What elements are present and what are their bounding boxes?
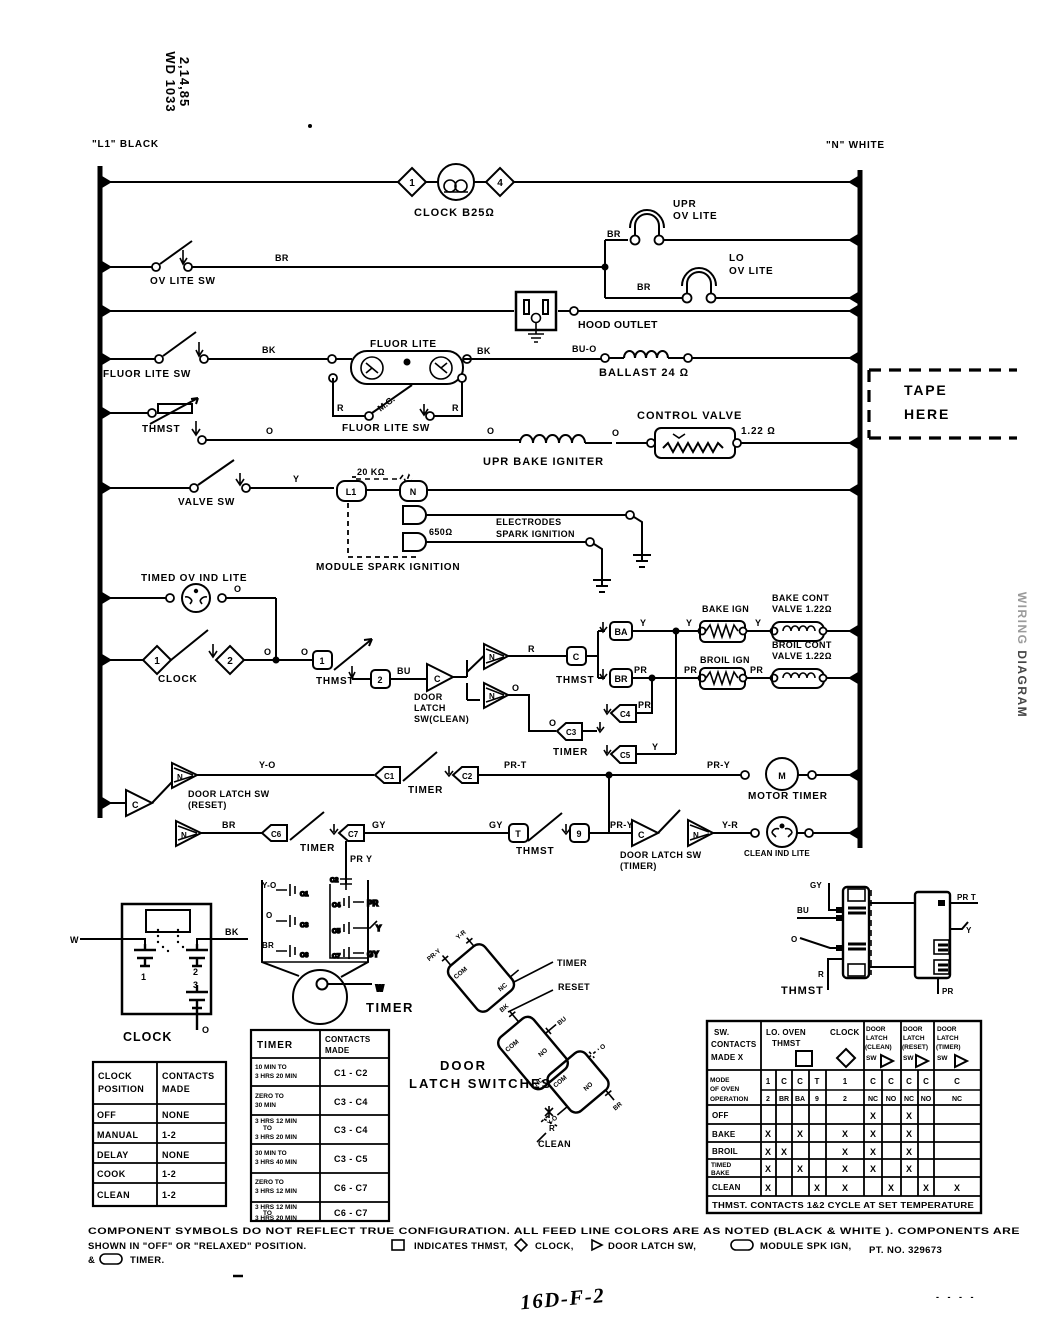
- svg-text:UPR: UPR: [673, 199, 697, 210]
- svg-text:PR-T: PR-T: [504, 760, 527, 770]
- wire electrode1 down: [634, 517, 642, 550]
- svg-text:OPERATION: OPERATION: [710, 1096, 748, 1103]
- svg-text:20 KΩ: 20 KΩ: [357, 467, 385, 477]
- svg-text:BK: BK: [477, 346, 491, 356]
- svg-text:THMST: THMST: [516, 846, 554, 857]
- svg-text:X: X: [906, 1164, 912, 1174]
- svg-text:TIMER: TIMER: [257, 1040, 293, 1051]
- svg-text:OV LITE: OV LITE: [673, 211, 718, 222]
- svg-text:3 HRS 40 MIN: 3 HRS 40 MIN: [255, 1159, 297, 1166]
- svg-text:3 HRS 12 MIN: 3 HRS 12 MIN: [255, 1204, 297, 1211]
- svg-text:3 HRS 20 MIN: 3 HRS 20 MIN: [255, 1073, 297, 1080]
- wire left bus L1: [98, 166, 103, 818]
- svg-text:C: C: [923, 1077, 929, 1086]
- node electrode1: [626, 511, 634, 519]
- svg-text:C5: C5: [620, 751, 631, 760]
- node fluor in: [328, 355, 336, 363]
- door latch switch clean body: [524, 1035, 642, 1151]
- svg-text:1: 1: [154, 656, 160, 667]
- thmst contact box 9: [570, 824, 589, 842]
- svg-text:C: C: [132, 800, 139, 810]
- svg-text:SHOWN IN "OFF" OR "RELAXED" P: SHOWN IN "OFF" OR "RELAXED" POSITION.: [88, 1241, 307, 1252]
- node junctions left bus: [102, 176, 112, 809]
- svg-text:3 HRS 12 MIN: 3 HRS 12 MIN: [255, 1188, 297, 1195]
- svg-text:THMST: THMST: [556, 675, 594, 686]
- svg-text:X: X: [870, 1147, 876, 1157]
- svg-text:OV LITE: OV LITE: [729, 266, 774, 277]
- svg-text:C: C: [870, 1077, 876, 1086]
- svg-text:X: X: [906, 1147, 912, 1157]
- svg-text:10 MIN TO: 10 MIN TO: [255, 1064, 287, 1071]
- svg-text:C6 - C7: C6 - C7: [334, 1208, 368, 1218]
- motor timer M: [741, 758, 860, 790]
- svg-text:R: R: [452, 403, 459, 413]
- svg-text:PT. NO. 329673: PT. NO. 329673: [869, 1245, 942, 1256]
- svg-text:DOOR: DOOR: [903, 1026, 923, 1033]
- wire L1 to M: [366, 489, 400, 491]
- svg-text:C1: C1: [300, 891, 309, 898]
- svg-text:CLOCK: CLOCK: [158, 674, 198, 685]
- wire hood outlet row: [100, 310, 860, 312]
- svg-text:TIMER: TIMER: [557, 958, 587, 968]
- svg-text:2: 2: [377, 675, 382, 685]
- svg-text:X: X: [888, 1183, 894, 1193]
- svg-text:X: X: [781, 1147, 787, 1157]
- svg-text:C: C: [434, 674, 441, 684]
- timer contact C4: [604, 704, 646, 722]
- svg-text:PR: PR: [750, 665, 763, 675]
- svg-text:O: O: [301, 647, 308, 657]
- svg-text:MADE: MADE: [162, 1084, 190, 1094]
- wire c7 to thmst T: [364, 832, 509, 834]
- node junctions right bus: [848, 176, 858, 839]
- svg-text:3 HRS 20 MIN: 3 HRS 20 MIN: [255, 1215, 297, 1222]
- svg-text:CLEAN IND LITE: CLEAN IND LITE: [744, 849, 810, 858]
- svg-text:SW.: SW.: [714, 1028, 729, 1037]
- timer contact c1: [276, 884, 309, 898]
- svg-text:C6: C6: [300, 952, 309, 959]
- svg-text:X: X: [870, 1164, 876, 1174]
- svg-text:C: C: [573, 652, 580, 662]
- node electrode2: [586, 538, 594, 546]
- svg-text:1: 1: [409, 178, 415, 189]
- svg-text:3 HRS 12 MIN: 3 HRS 12 MIN: [255, 1118, 297, 1125]
- timer motor wire W: [327, 984, 384, 993]
- switch FLUOR LITE SW: [100, 332, 328, 363]
- svg-text:X: X: [870, 1129, 876, 1139]
- svg-text:DOOR: DOOR: [937, 1026, 957, 1033]
- wire BA to bake ign: [632, 630, 698, 632]
- thmst wire gy: [810, 881, 843, 913]
- svg-text:C: C: [797, 1077, 803, 1086]
- label clean leader: [537, 1133, 571, 1149]
- latch clean r leader: [541, 1116, 557, 1133]
- svg-text:1-2: 1-2: [162, 1130, 176, 1140]
- svg-text:TIMED: TIMED: [711, 1162, 732, 1169]
- svg-text:GY: GY: [489, 820, 503, 830]
- svg-text:NC: NC: [868, 1096, 878, 1103]
- svg-text:"L1" BLACK: "L1" BLACK: [92, 139, 159, 150]
- svg-text:"N" WHITE: "N" WHITE: [826, 140, 885, 151]
- resistor 20k dashed: [356, 467, 412, 483]
- svg-text:X: X: [842, 1147, 848, 1157]
- node pr junction: [649, 675, 656, 682]
- node fluor out / BK: [463, 355, 471, 363]
- lamp CLEAN IND LITE: [713, 817, 860, 847]
- svg-text:BR: BR: [275, 253, 289, 263]
- wire C box to BA BR split: [586, 622, 607, 679]
- timer contact c4: [332, 896, 379, 909]
- switch latch timer blade: [658, 810, 680, 833]
- svg-text:DELAY: DELAY: [97, 1150, 129, 1160]
- svg-text:R: R: [549, 1124, 555, 1133]
- svg-text:1-2: 1-2: [162, 1190, 176, 1200]
- svg-text:TIMED OV IND LITE: TIMED OV IND LITE: [141, 573, 247, 584]
- timer contact c3: [276, 915, 309, 929]
- svg-text:Y: Y: [376, 924, 382, 933]
- solenoid BROIL CONT VALVE: [771, 669, 861, 688]
- svg-text:BK: BK: [262, 345, 276, 355]
- svg-text:O: O: [612, 428, 619, 438]
- wire BR to broil ign: [632, 677, 698, 679]
- svg-text:LO. OVEN: LO. OVEN: [766, 1028, 806, 1037]
- thmst lower component right box: [915, 892, 950, 978]
- svg-text:PR-Y: PR-Y: [707, 760, 730, 770]
- hood outlet receptacle: [516, 292, 556, 342]
- timer contact c5: [332, 921, 382, 935]
- svg-text:- - - -: - - - -: [936, 1292, 977, 1302]
- svg-text:LO: LO: [729, 253, 745, 264]
- svg-text:O: O: [202, 1025, 209, 1035]
- clock cam dots: [157, 929, 184, 952]
- thmst contact box 1: [313, 651, 332, 669]
- node control valve in: [647, 439, 655, 447]
- svg-text:C4: C4: [332, 902, 341, 909]
- thmst contact box 2: [371, 670, 390, 688]
- svg-text:(TIMER): (TIMER): [936, 1044, 961, 1051]
- svg-text:1: 1: [141, 972, 146, 982]
- svg-text:CONTACTS: CONTACTS: [711, 1040, 757, 1049]
- svg-text:DOOR LATCH SW,: DOOR LATCH SW,: [608, 1241, 696, 1252]
- svg-text:WIRING DIAGRAM: WIRING DIAGRAM: [1015, 592, 1029, 718]
- svg-text:NO: NO: [886, 1096, 897, 1103]
- switch reset blade: [152, 782, 172, 803]
- svg-text:1: 1: [319, 656, 324, 666]
- svg-text:SW: SW: [903, 1055, 914, 1062]
- svg-text:VALVE 1.22Ω: VALVE 1.22Ω: [772, 651, 832, 661]
- svg-text:BROIL CONT: BROIL CONT: [772, 640, 832, 650]
- node prt junction: [606, 772, 613, 779]
- timer contact c7: [332, 947, 379, 960]
- svg-text:GY: GY: [367, 950, 379, 959]
- footnote module symbol: [731, 1240, 753, 1250]
- ground electrode1: [633, 550, 651, 567]
- svg-text:C7: C7: [348, 830, 359, 839]
- svg-text:PR-Y: PR-Y: [610, 820, 633, 830]
- svg-text:OFF: OFF: [97, 1110, 116, 1120]
- module electrode terminal 1: [403, 506, 626, 524]
- svg-text:4: 4: [497, 178, 503, 189]
- svg-text:BAKE: BAKE: [711, 1170, 730, 1177]
- svg-text:O: O: [266, 911, 272, 920]
- mode table frame: [707, 1021, 981, 1213]
- svg-text:BU: BU: [797, 906, 809, 915]
- svg-text:THMST: THMST: [142, 424, 180, 435]
- svg-text:(CLEAN): (CLEAN): [865, 1044, 892, 1051]
- timer contact C1: [375, 767, 400, 783]
- svg-text:SW: SW: [866, 1055, 877, 1062]
- svg-text:CLOCK,: CLOCK,: [535, 1241, 574, 1252]
- svg-text:SPARK IGNITION: SPARK IGNITION: [496, 529, 575, 539]
- svg-text:PR: PR: [942, 987, 954, 996]
- clock motor M1: [438, 164, 474, 200]
- ground electrode2: [593, 576, 611, 592]
- svg-text:X: X: [814, 1183, 820, 1193]
- svg-text:LATCH: LATCH: [937, 1035, 959, 1042]
- svg-text:DOOR: DOOR: [440, 1058, 487, 1073]
- note: stamp date rotated: [163, 51, 192, 112]
- svg-text:CLOCK: CLOCK: [123, 1030, 172, 1044]
- lamp LO OV LITE: [605, 268, 860, 303]
- timer table frame: [251, 1030, 389, 1221]
- wire right bus N: [858, 170, 863, 848]
- svg-text:COMPONENT SYMBOLS DO NOT REFL: COMPONENT SYMBOLS DO NOT REFLECT TRUE CO…: [88, 1226, 1020, 1237]
- timer contact C2: [445, 766, 478, 783]
- wire box2 to latch: [390, 678, 427, 680]
- svg-text:2: 2: [766, 1096, 770, 1103]
- svg-text:VALVE 1.22Ω: VALVE 1.22Ω: [772, 604, 832, 614]
- wire NO to thmst C: [508, 655, 567, 657]
- switch thmst blade t9: [528, 813, 570, 841]
- clock contact right: [186, 944, 208, 966]
- door latch clean common C: [427, 664, 453, 691]
- svg-text:C: C: [781, 1077, 787, 1086]
- svg-text:Y: Y: [686, 618, 692, 628]
- svg-text:THMST. CONTACTS 1&2 CYCLE AT: THMST. CONTACTS 1&2 CYCLE AT SET TEMPERA…: [712, 1201, 975, 1210]
- clock contact bottom: [186, 985, 208, 1030]
- door latch reset NC contact: [176, 821, 201, 846]
- svg-text:C5: C5: [332, 928, 341, 935]
- stray speck: [308, 124, 312, 128]
- wire diamond2 to thmst: [244, 659, 313, 661]
- svg-text:GY: GY: [810, 881, 822, 890]
- svg-text:30 MIN TO: 30 MIN TO: [255, 1150, 287, 1157]
- svg-text:X: X: [906, 1129, 912, 1139]
- thmst wire bu: [797, 906, 843, 921]
- svg-text:1: 1: [766, 1077, 771, 1086]
- wire branch to lamps: [604, 240, 606, 298]
- svg-text:C1 - C2: C1 - C2: [334, 1068, 368, 1078]
- wire bus to reset common: [100, 802, 126, 804]
- thmst wire y: [950, 922, 972, 935]
- svg-text:BAKE: BAKE: [712, 1130, 736, 1139]
- footnote latch symbol: [592, 1240, 602, 1250]
- svg-text:C3 - C4: C3 - C4: [334, 1125, 368, 1135]
- svg-text:C6 - C7: C6 - C7: [334, 1183, 368, 1193]
- svg-text:3 HRS 20 MIN: 3 HRS 20 MIN: [255, 1134, 297, 1141]
- svg-text:9: 9: [815, 1096, 819, 1103]
- clock component body: [122, 904, 211, 1014]
- svg-text:OV LITE SW: OV LITE SW: [150, 276, 216, 287]
- svg-text:O: O: [266, 426, 273, 436]
- svg-text:R: R: [818, 970, 824, 979]
- switch OV LITE SW: [100, 241, 605, 271]
- svg-text:HOOD OUTLET: HOOD OUTLET: [578, 319, 658, 331]
- svg-text:MODULE SPK IGN,: MODULE SPK IGN,: [760, 1241, 852, 1252]
- svg-text:ZERO TO: ZERO TO: [255, 1179, 284, 1186]
- svg-text:ZERO TO: ZERO TO: [255, 1093, 284, 1100]
- clock contact diamond 4: [486, 168, 514, 196]
- timer contact C3: [557, 723, 582, 740]
- timer contact c6: [276, 945, 309, 959]
- svg-text:CLOCK B25Ω: CLOCK B25Ω: [414, 207, 495, 219]
- svg-text:C3 - C4: C3 - C4: [334, 1097, 368, 1107]
- svg-text:(TIMER): (TIMER): [620, 861, 657, 871]
- svg-text:TIMER: TIMER: [300, 843, 335, 854]
- switch latch clean blade: [467, 648, 492, 672]
- svg-text:X: X: [765, 1183, 771, 1193]
- svg-text:HERE: HERE: [904, 406, 950, 422]
- module spark ignition dashed outline: [348, 477, 420, 557]
- svg-text:CLEAN: CLEAN: [97, 1190, 130, 1200]
- svg-text:1-2: 1-2: [162, 1169, 176, 1179]
- svg-text:X: X: [954, 1183, 960, 1193]
- wire pr vertical to c4: [646, 678, 652, 713]
- wire row1 clock motor line: [100, 181, 860, 183]
- door latch timer common C: [632, 820, 658, 846]
- svg-text:M: M: [778, 771, 786, 781]
- wire N to bus: [427, 489, 860, 491]
- svg-text:Y: Y: [293, 474, 299, 484]
- svg-text:SW(CLEAN): SW(CLEAN): [414, 714, 469, 724]
- svg-text:TIMER: TIMER: [408, 785, 443, 796]
- svg-text:CLEAN: CLEAN: [538, 1139, 571, 1149]
- thmst lower connecting wires: [869, 903, 915, 967]
- svg-text:THMST: THMST: [781, 985, 824, 997]
- svg-text:PR: PR: [634, 665, 647, 675]
- svg-text:INDICATES THMST,: INDICATES THMST,: [414, 1241, 508, 1252]
- svg-text:ELECTRODES: ELECTRODES: [496, 517, 562, 527]
- svg-text:TIMER.: TIMER.: [130, 1255, 165, 1266]
- svg-text:PR Y: PR Y: [350, 854, 372, 864]
- svg-text:TIMER: TIMER: [553, 747, 588, 758]
- svg-text:LATCH: LATCH: [903, 1035, 925, 1042]
- svg-text:X: X: [923, 1183, 929, 1193]
- module terminal N: [400, 481, 427, 501]
- svg-text:R: R: [528, 644, 535, 654]
- door latch reset common C: [126, 790, 152, 816]
- svg-text:Y: Y: [652, 742, 658, 752]
- lamp FLUOR LITE tube: [336, 351, 463, 384]
- svg-text:PR: PR: [684, 665, 697, 675]
- svg-text:BR: BR: [779, 1096, 789, 1103]
- svg-text:NONE: NONE: [162, 1150, 190, 1160]
- svg-text:BROIL: BROIL: [712, 1147, 738, 1156]
- svg-text:R: R: [337, 403, 344, 413]
- svg-text:DOOR LATCH SW: DOOR LATCH SW: [620, 850, 702, 860]
- thmst contact box T: [509, 824, 528, 842]
- svg-text:GY: GY: [372, 820, 386, 830]
- thmst wire pr: [938, 978, 954, 996]
- footnote thmst symbol: [392, 1240, 404, 1250]
- svg-text:FLUOR LITE: FLUOR LITE: [370, 339, 437, 350]
- svg-text:PR T: PR T: [957, 893, 976, 902]
- timer inner frame: [262, 884, 368, 962]
- door latch timer NO contact: [688, 820, 713, 846]
- wire latch lower riser: [467, 683, 480, 700]
- node y junction: [673, 628, 680, 635]
- svg-text:X: X: [842, 1129, 848, 1139]
- lamp UPR OV LITE: [605, 210, 860, 245]
- svg-text:BALLAST 24 Ω: BALLAST 24 Ω: [599, 367, 689, 379]
- svg-text:BA: BA: [615, 627, 628, 637]
- svg-text:THMST: THMST: [772, 1039, 801, 1048]
- inductor BALLAST: [609, 351, 860, 362]
- door latch clean NO contact: [484, 644, 508, 669]
- svg-text:X: X: [842, 1164, 848, 1174]
- svg-text:C3 - C5: C3 - C5: [334, 1154, 368, 1164]
- svg-text:MODULE SPARK IGNITION: MODULE SPARK IGNITION: [316, 562, 460, 573]
- svg-text:C: C: [888, 1077, 894, 1086]
- svg-text:DOOR LATCH SW: DOOR LATCH SW: [188, 789, 270, 799]
- svg-text:C3: C3: [566, 728, 577, 737]
- svg-text:CLOCK: CLOCK: [98, 1071, 132, 1081]
- svg-text:SW: SW: [937, 1055, 948, 1062]
- switch timer blade c1c2: [403, 752, 437, 781]
- svg-text:(RESET): (RESET): [902, 1044, 928, 1051]
- svg-text:2: 2: [193, 967, 198, 977]
- svg-text:O: O: [791, 935, 797, 944]
- control valve assembly: [616, 428, 860, 458]
- svg-text:BAKE CONT: BAKE CONT: [772, 593, 829, 603]
- svg-text:C4: C4: [620, 710, 631, 719]
- clock table frame: [93, 1062, 226, 1206]
- svg-text:UPR BAKE IGNITER: UPR BAKE IGNITER: [483, 456, 604, 468]
- svg-text:X: X: [765, 1164, 771, 1174]
- svg-text:X: X: [797, 1129, 803, 1139]
- switch timer blade c6c7: [290, 812, 324, 840]
- thermostat THMST main: [100, 398, 516, 444]
- svg-text:W: W: [376, 984, 384, 993]
- door latch reset NO contact: [172, 763, 197, 788]
- svg-text:BA: BA: [795, 1096, 805, 1103]
- svg-text:CONTACTS: CONTACTS: [162, 1071, 215, 1081]
- timer contact C6: [262, 825, 287, 841]
- wire clock row: [100, 659, 146, 661]
- svg-text:BK: BK: [225, 927, 239, 937]
- lamp TIMED OV IND LITE: [100, 584, 276, 612]
- svg-text:O: O: [549, 718, 556, 728]
- wire c2 to motor: [478, 774, 741, 776]
- latch timer leader and label: [514, 958, 587, 982]
- svg-text:X: X: [870, 1111, 876, 1121]
- wire electrode2 down: [594, 544, 602, 576]
- svg-text:C1: C1: [384, 772, 395, 781]
- wire nc to c6: [201, 832, 262, 834]
- svg-text:C6: C6: [271, 830, 282, 839]
- clock wire W: [70, 935, 145, 945]
- module terminal L1: [337, 481, 366, 501]
- svg-text:TIMER: TIMER: [366, 1000, 414, 1015]
- thmst lower component left box: [843, 887, 869, 978]
- svg-text:O: O: [234, 584, 241, 594]
- svg-text:&: &: [88, 1255, 95, 1266]
- node ind join: [273, 657, 280, 664]
- svg-text:X: X: [765, 1129, 771, 1139]
- node ballast in: [601, 354, 609, 362]
- timer contact C5: [604, 745, 676, 763]
- mode table contact ids row2: [766, 1096, 962, 1103]
